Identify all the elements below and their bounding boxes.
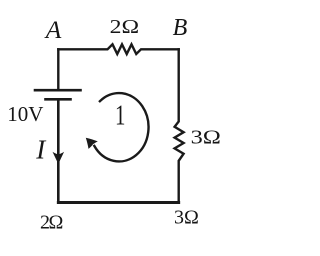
svg-text:1: 1 (115, 99, 125, 131)
svg-text:I: I (35, 135, 47, 165)
svg-text:B: B (173, 15, 188, 41)
svg-text:3Ω: 3Ω (174, 206, 199, 228)
svg-text:Ω: Ω (49, 212, 64, 234)
svg-text:2Ω: 2Ω (110, 16, 140, 38)
svg-text:3Ω: 3Ω (191, 127, 221, 149)
svg-text:10V: 10V (7, 102, 43, 126)
svg-text:A: A (44, 15, 62, 44)
